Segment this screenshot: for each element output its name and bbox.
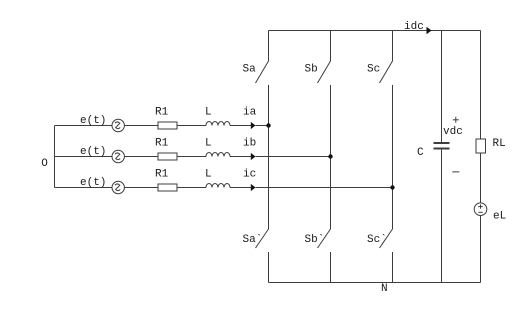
source eL	[474, 203, 487, 216]
switch Sc blade	[380, 61, 393, 83]
capacitor C plates	[434, 143, 450, 149]
wire RL to eL	[480, 153, 482, 203]
wire load branch upper	[480, 31, 482, 140]
source Eb e(t)	[112, 150, 124, 162]
wire phase b from O to source	[55, 156, 113, 158]
junction node B dot	[328, 154, 332, 158]
wire bottom dc rail N	[269, 282, 481, 284]
source Ec e(t)	[112, 181, 124, 193]
inductor L phase b	[206, 153, 230, 157]
wire source Ec to R1c	[124, 187, 158, 189]
inductor L phase a	[206, 122, 230, 126]
arrow current ia	[251, 122, 256, 129]
wire phase c from O to source	[55, 187, 113, 189]
node O	[0, 0, 1, 1]
wire arrow ic to node C-phase	[256, 187, 393, 189]
resistor R1 phase b	[158, 153, 177, 160]
inductor L phase c	[206, 184, 230, 188]
wire bus leg b	[330, 85, 332, 229]
svg-text:Sa`: Sa`	[243, 233, 263, 246]
svg-text:ib: ib	[243, 138, 256, 150]
svg-text:N: N	[381, 283, 388, 295]
wire left bus O vertical	[54, 126, 56, 188]
svg-text:R1: R1	[155, 138, 169, 150]
switch Sc' blade	[380, 229, 393, 248]
switch Sa upper stub	[268, 31, 270, 62]
junction node C-phase dot	[390, 185, 394, 189]
junction node A dot	[266, 123, 270, 127]
svg-text:ia: ia	[243, 107, 257, 119]
arrow current ic	[251, 184, 256, 191]
switch Sc upper stub	[392, 31, 394, 62]
svg-text:R1: R1	[155, 169, 169, 181]
wire source Ea to R1a	[124, 125, 158, 127]
svg-text:eL: eL	[493, 211, 506, 223]
wire bus leg c	[392, 85, 394, 229]
svg-text:Sb: Sb	[305, 64, 318, 76]
svg-text:Sc: Sc	[367, 64, 380, 76]
wire capacitor branch lower	[441, 150, 443, 283]
switch Sb' blade	[318, 229, 331, 248]
wire R1b to Lb	[177, 156, 206, 158]
wire phase a from O to source	[55, 125, 113, 127]
svg-text:L: L	[205, 138, 212, 150]
wire R1a to La	[177, 125, 206, 127]
svg-text:vdc: vdc	[443, 126, 463, 138]
svg-text:O: O	[41, 158, 48, 170]
svg-text:Sa: Sa	[243, 64, 257, 76]
svg-text:e(t): e(t)	[80, 146, 106, 158]
svg-text:L: L	[205, 107, 212, 119]
switch Sa' blade	[256, 229, 269, 248]
wire eL to bottom rail	[480, 216, 482, 283]
wire top dc rail	[269, 30, 481, 32]
resistor R1 phase c	[158, 184, 177, 191]
svg-text:e(t): e(t)	[80, 177, 106, 189]
svg-text:ic: ic	[243, 169, 256, 181]
source Ea e(t)	[112, 119, 124, 131]
resistor R1 phase a	[158, 122, 177, 129]
wire arrow ib to node B	[256, 156, 331, 158]
wire capacitor branch upper	[441, 31, 443, 143]
wire Lb to arrow ib	[230, 156, 251, 158]
minus sign vdc	[452, 171, 459, 173]
wire source Eb to R1b	[124, 156, 158, 158]
wire arrow ia to node A	[256, 125, 269, 127]
wire bus leg a	[268, 85, 270, 229]
svg-text:Sc`: Sc`	[367, 233, 387, 246]
switch Sa' lower stub	[268, 252, 270, 283]
wire La to arrow ia	[230, 125, 251, 127]
resistor RL	[476, 139, 486, 153]
switch Sb' lower stub	[330, 252, 332, 283]
arrow current idc	[427, 27, 432, 35]
arrow current ib	[251, 153, 256, 160]
switch Sc' lower stub	[392, 252, 394, 283]
wire Lc to arrow ic	[230, 187, 251, 189]
wire R1c to Lc	[177, 187, 206, 189]
svg-text:RL: RL	[493, 138, 506, 150]
svg-text:L: L	[205, 169, 212, 181]
switch Sb blade	[318, 61, 331, 83]
svg-text:C: C	[417, 147, 424, 159]
svg-text:e(t): e(t)	[80, 115, 106, 127]
switch Sa blade	[256, 61, 269, 83]
plus sign vdc	[453, 117, 459, 123]
svg-text:idc: idc	[404, 21, 424, 33]
switch Sb upper stub	[330, 31, 332, 62]
svg-text:R1: R1	[155, 107, 169, 119]
svg-text:Sb`: Sb`	[305, 233, 325, 246]
